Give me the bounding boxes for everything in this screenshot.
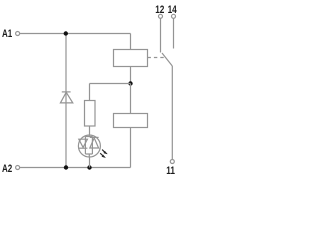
node bottom junction left [64,165,68,169]
relay coil K1 (lower box) [114,114,148,128]
node bottom junction middle [87,165,91,169]
svg-text:A2: A2 [2,163,12,176]
LED indicator H1 circle [78,135,100,157]
terminal 14 [172,14,176,18]
svg-text:14: 14 [168,4,178,16]
svg-text:A1: A1 [2,28,13,41]
relay coil K1 (upper box) [114,50,148,67]
contact blade [162,53,172,66]
wire top-right vertical to coil [130,34,132,50]
diode V1 cathode bar [62,91,71,93]
wire bottom rail A2 [20,167,131,169]
wire lower coil to bottom rail [130,128,132,168]
LED internal right diode (up) triangle [90,138,99,148]
actuation dashed link [148,57,166,59]
wire contact 12 vertical [160,18,162,52]
wire junction to lower coil [130,84,132,114]
LED internal left diode bar [79,147,88,149]
resistor R1 [85,101,96,127]
terminal A1 [16,32,20,36]
node junction mid-right [128,81,132,85]
LED internal left diode (down) triangle [79,139,88,147]
LED internal rails rectangle [85,135,92,157]
wire branch horizontal [90,83,131,85]
svg-text:11: 11 [166,165,175,177]
wire resistor to LED [89,126,91,135]
diode V1 triangle [60,92,72,103]
node top junction [64,31,68,35]
terminal 12 [159,14,163,18]
wire pole 11 vertical [171,66,173,160]
wire coil to junction [130,67,132,84]
LED internal right diode bar [90,136,99,138]
wire contact 14 vertical [173,18,175,48]
wire branch down to resistor [89,84,91,101]
terminal A2 [16,166,20,170]
wire LED to bottom rail [89,157,91,168]
wire diode branch vertical [65,34,67,168]
LED emission arrow 1 [102,150,107,154]
LED emission arrow 2 [100,153,105,157]
svg-text:12: 12 [155,4,165,16]
terminal 11 [170,160,174,164]
wire A1 horizontal [20,33,131,35]
